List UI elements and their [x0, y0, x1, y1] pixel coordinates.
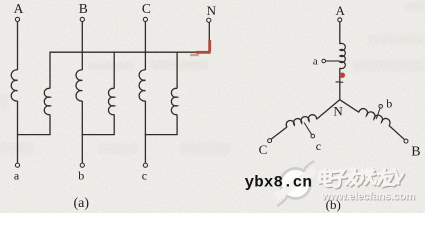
wire tap a lead	[326, 60, 340, 62]
bleed-through smudge row 3	[352, 2, 425, 72]
wire tap c lead	[304, 123, 312, 135]
winding C-phase secondary	[171, 88, 177, 114]
svg-text:ybx8.cn: ybx8.cn	[245, 173, 312, 191]
svg-text:c: c	[316, 139, 321, 153]
terminal c circle (b)	[311, 134, 315, 138]
wire C top lead	[144, 22, 146, 71]
wire B secondary top lead	[113, 52, 115, 88]
wire A bottom link	[17, 134, 51, 136]
winding A-phase primary	[11, 70, 17, 101]
terminal N circle	[207, 18, 211, 22]
watermark elecfans logo circle	[274, 161, 317, 206]
terminal b circle	[80, 163, 84, 167]
terminal A circle	[15, 17, 19, 21]
terminal C circle	[143, 17, 147, 21]
wire B lower lead	[81, 101, 83, 163]
terminal x tick	[336, 81, 344, 84]
wire node to C winding	[317, 100, 340, 120]
winding A-phase secondary	[44, 88, 50, 114]
wire C secondary top lead	[176, 52, 178, 88]
terminal a circle	[15, 163, 19, 167]
bleed-through smudge row 2	[0, 94, 230, 155]
wire A secondary bottom lead	[49, 115, 51, 135]
wire N lead	[208, 22, 210, 52]
red pen mark on N corner	[190, 40, 210, 56]
wire C winding to terminal	[271, 127, 287, 139]
svg-text:B: B	[411, 145, 420, 160]
svg-text:N: N	[333, 103, 343, 118]
wire A secondary top lead	[49, 52, 51, 88]
svg-text:b: b	[386, 97, 392, 111]
winding C-phase primary	[139, 70, 145, 101]
terminal C circle (b)	[268, 139, 272, 143]
red ink dot	[340, 73, 345, 78]
svg-text:C: C	[259, 142, 268, 157]
terminal B circle	[80, 17, 84, 21]
watermark chinese characters emboss	[320, 168, 404, 188]
terminal A circle (b)	[338, 18, 342, 22]
svg-text:a: a	[14, 168, 20, 182]
terminal c circle	[143, 163, 147, 167]
svg-text:B: B	[79, 1, 88, 16]
svg-text:b: b	[78, 168, 84, 182]
wire B winding to terminal	[389, 126, 405, 140]
wire C bottom link	[145, 134, 178, 136]
winding B-phase secondary	[108, 88, 114, 114]
wire C secondary bottom lead	[176, 115, 178, 135]
svg-text:A: A	[336, 3, 346, 18]
svg-text:(a): (a)	[74, 196, 90, 211]
wire B bottom link	[82, 134, 115, 136]
svg-text:(b): (b)	[326, 197, 341, 212]
watermark www.elecfans.com	[321, 191, 416, 204]
winding B phase (b)	[359, 109, 390, 126]
wire B secondary bottom lead	[113, 115, 115, 135]
winding A phase (b)	[340, 43, 346, 68]
wire A lower lead	[17, 101, 19, 163]
terminal b circle (b)	[379, 105, 383, 109]
winding B-phase primary	[76, 70, 82, 101]
svg-text:N: N	[207, 3, 217, 18]
wire A lead (b)	[339, 22, 341, 44]
wire tap b lead	[376, 108, 380, 119]
svg-text:C: C	[142, 1, 151, 16]
terminal B circle (b)	[404, 139, 408, 143]
winding C phase (b)	[286, 115, 316, 127]
wire neutral bus	[49, 51, 209, 53]
svg-text:A: A	[14, 1, 24, 16]
wire B top lead	[81, 22, 83, 71]
wire A top lead	[17, 22, 19, 71]
svg-text:a: a	[313, 56, 318, 68]
bleed-through smudge row 1	[88, 60, 208, 70]
terminal a circle (b)	[322, 59, 326, 63]
svg-text:c: c	[142, 168, 147, 182]
wire node to B winding	[340, 100, 359, 113]
wire A to node (b)	[339, 68, 341, 100]
wire C lower lead	[144, 101, 146, 163]
